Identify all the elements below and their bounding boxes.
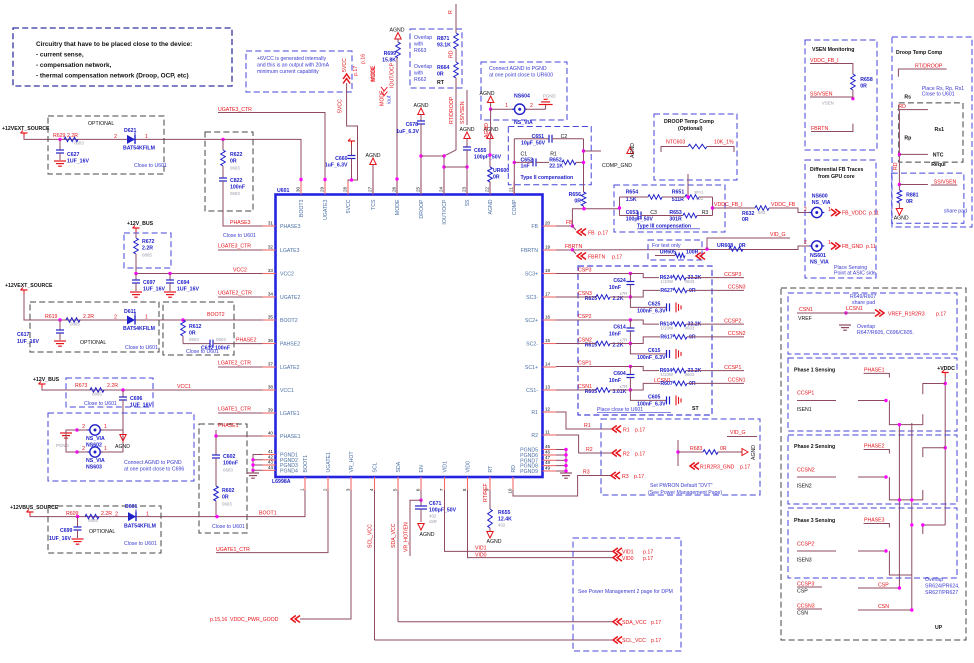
svg-text:UGATE2: UGATE2: [280, 295, 300, 301]
svg-text:Phase 3 Sensing: Phase 3 Sensing: [794, 518, 835, 524]
svg-text:100nF: 100nF: [230, 185, 245, 191]
wire NTC to type III: [687, 174, 689, 197]
svg-text:45: 45: [545, 444, 551, 449]
svg-text:p.17: p.17: [635, 452, 645, 458]
svg-text:C1: C1: [521, 151, 528, 157]
svg-text:PHASE3: PHASE3: [280, 224, 301, 230]
svg-text:R1: R1: [531, 410, 538, 416]
svg-text:RD: RD: [449, 50, 455, 58]
svg-text:NTC: NTC: [933, 153, 944, 159]
svg-text:1/10W: 1/10W: [660, 326, 674, 331]
svg-text:- thermal compensation network: - thermal compensation network (Droop, O…: [36, 73, 189, 80]
svg-text:IOUT/OCP: IOUT/OCP: [390, 62, 396, 88]
svg-text:100pF_50V: 100pF_50V: [474, 155, 502, 161]
svg-text:p.17: p.17: [634, 474, 644, 480]
svg-text:p.11: p.11: [869, 211, 879, 217]
svg-text:p.15,16: p.15,16: [210, 617, 227, 623]
svg-text:PAHSE2: PAHSE2: [280, 342, 300, 348]
svg-text:Close to U601: Close to U601: [223, 233, 256, 239]
note box ST current sense: [578, 266, 712, 415]
svg-text:LGATE3: LGATE3: [280, 248, 300, 254]
svg-text:Close to U601: Close to U601: [84, 401, 117, 407]
capacitor C617: [59, 320, 61, 330]
svg-text:CSN: CSN: [878, 604, 889, 610]
svg-text:0R: 0R: [720, 446, 727, 452]
wire AGND net down: [490, 109, 492, 138]
svg-text:402: 402: [429, 514, 437, 519]
svg-text:NS_VIA: NS_VIA: [514, 120, 533, 126]
capacitor C627: [59, 139, 61, 150]
svg-text:L6998A: L6998A: [272, 479, 291, 485]
svg-text:PHASE1: PHASE1: [218, 423, 239, 429]
svg-text:Close to U601: Close to U601: [134, 163, 167, 169]
svg-text:7: 7: [439, 488, 444, 491]
svg-text:R1: R1: [623, 428, 630, 434]
svg-text:LGATE1_CTR: LGATE1_CTR: [218, 407, 251, 413]
svg-text:NS603: NS603: [86, 465, 102, 471]
svg-text:p.17: p.17: [635, 428, 645, 434]
svg-text:RT: RT: [488, 465, 494, 473]
svg-text:VID1: VID1: [443, 461, 449, 473]
svg-text:10nF: 10nF: [609, 285, 621, 291]
svg-text:5VCC: 5VCC: [346, 199, 352, 213]
svg-text:Close to U601: Close to U601: [212, 524, 245, 530]
svg-text:CCSN2: CCSN2: [797, 468, 815, 474]
note box D621 optional: [48, 116, 164, 174]
note box C602/R602: [199, 424, 247, 533]
svg-text:39: 39: [268, 408, 274, 413]
svg-text:36: 36: [268, 338, 274, 343]
svg-text:with: with: [414, 42, 423, 48]
svg-text:TCS: TCS: [371, 199, 377, 210]
svg-text:NS_VIA: NS_VIA: [86, 458, 105, 464]
svg-text:LGATE1: LGATE1: [280, 411, 300, 417]
svg-text:Overlap: Overlap: [414, 35, 432, 41]
svg-text:Connect AGND to PGND: Connect AGND to PGND: [489, 66, 547, 72]
resistor R617: [630, 337, 660, 344]
svg-text:D601: D601: [125, 504, 138, 510]
svg-text:MODE: MODE: [371, 66, 377, 82]
svg-text:25: 25: [416, 186, 421, 192]
svg-text:BAT54KFILM: BAT54KFILM: [123, 326, 155, 332]
svg-text:2: 2: [323, 488, 328, 491]
svg-text:Set PWRON Default "DVT": Set PWRON Default "DVT": [650, 483, 713, 489]
inner box share pad: [892, 173, 964, 223]
svg-text:1uF_6.3V: 1uF_6.3V: [325, 163, 348, 169]
svg-text:OPTIONAL: OPTIONAL: [88, 121, 114, 127]
svg-text:10K_1%: 10K_1%: [714, 140, 734, 146]
svg-text:Point at ASIC side: Point at ASIC side: [834, 271, 876, 277]
svg-text:0805: 0805: [92, 392, 102, 397]
wire FB: [556, 225, 572, 227]
svg-text:18: 18: [545, 268, 551, 273]
svg-text:CSP: CSP: [797, 589, 808, 595]
svg-text:and this is an output with 20m: and this is an output with 20mA: [257, 63, 330, 69]
svg-text:R3: R3: [583, 470, 590, 476]
svg-text:SCL: SCL: [373, 462, 379, 472]
note box DPM: [573, 538, 681, 651]
svg-text:NS_VIA: NS_VIA: [812, 200, 831, 206]
svg-text:SS/VSEN: SS/VSEN: [460, 101, 466, 124]
svg-text:CCSP2: CCSP2: [797, 542, 814, 548]
svg-text:0R: 0R: [493, 175, 500, 181]
svg-text:LGATE2: LGATE2: [280, 365, 300, 371]
svg-text:FBRTN: FBRTN: [588, 255, 605, 261]
svg-text:+12VEXT_SOURCE: +12VEXT_SOURCE: [5, 283, 53, 289]
capacitor C694: [169, 274, 171, 281]
svg-text:NS604: NS604: [514, 94, 530, 100]
PGND5-9 ground: [565, 450, 567, 473]
note box: overlap with R663/R662: [410, 29, 462, 88]
note box: circuitry close to device: [13, 28, 232, 86]
svg-text:4: 4: [369, 488, 374, 491]
svg-text:1UF_16V: 1UF_16V: [49, 536, 71, 542]
svg-text:MODE: MODE: [380, 90, 386, 106]
svg-text:Close to U601: Close to U601: [124, 541, 157, 547]
svg-text:from GPU core: from GPU core: [818, 174, 855, 180]
svg-text:R672: R672: [142, 239, 155, 245]
svg-text:0603: 0603: [230, 166, 240, 171]
svg-text:LGATE3_CTR: LGATE3_CTR: [218, 244, 251, 250]
wire VCC2: [136, 273, 263, 275]
note box connect AGND to PGND UR600: [481, 62, 567, 120]
svg-text:CCSN2: CCSN2: [728, 331, 746, 337]
svg-text:+12V_BUS: +12V_BUS: [127, 221, 154, 227]
svg-text:Phase 1 Sensing: Phase 1 Sensing: [794, 368, 835, 374]
svg-text:0603: 0603: [230, 191, 240, 196]
svg-text:C604: C604: [613, 371, 626, 377]
svg-text:p.16: p.16: [361, 54, 367, 64]
svg-text:RT: RT: [437, 80, 445, 86]
svg-text:x5R: x5R: [429, 519, 437, 524]
svg-text:Type II compensation: Type II compensation: [521, 175, 574, 181]
svg-text:0805: 0805: [142, 253, 152, 258]
svg-text:R2: R2: [623, 452, 630, 458]
svg-text:R655: R655: [498, 510, 511, 516]
capacitor C625: [630, 297, 666, 307]
svg-text:BOOT1: BOOT1: [259, 511, 277, 517]
svg-text:Close to U601: Close to U601: [922, 92, 955, 98]
svg-text:OPTIONAL: OPTIONAL: [89, 529, 115, 535]
svg-text:C602: C602: [223, 454, 236, 460]
svg-text:Requi: Requi: [931, 162, 946, 168]
svg-text:PGND9: PGND9: [520, 469, 538, 475]
svg-text:SC2-: SC2-: [526, 342, 538, 348]
svg-text:ISEN2: ISEN2: [797, 484, 812, 490]
svg-text:FB_GND: FB_GND: [842, 244, 863, 250]
svg-text:NS600: NS600: [812, 194, 828, 200]
svg-text:C605: C605: [648, 395, 661, 401]
svg-text:Circuitry that have to be plac: Circuitry that have to be placed close t…: [36, 41, 192, 48]
svg-text:1UF_16V: 1UF_16V: [143, 287, 165, 293]
svg-text:1UF_16V: 1UF_16V: [130, 403, 152, 409]
svg-text:AGND: AGND: [751, 445, 757, 460]
svg-text:CSP2: CSP2: [578, 314, 592, 320]
ground overlap: [839, 324, 851, 326]
svg-text:R602: R602: [222, 488, 235, 494]
resistor R655 on RT: [489, 490, 491, 509]
svg-text:VCC1: VCC1: [280, 388, 294, 394]
svg-text:17: 17: [545, 292, 551, 297]
svg-text:AGND: AGND: [484, 123, 490, 138]
svg-text:AGND: AGND: [488, 199, 494, 214]
svg-text:p.17: p.17: [598, 231, 608, 237]
long vertical wires: [898, 425, 900, 588]
via NS602: [77, 429, 90, 431]
svg-text:COMP_GND: COMP_GND: [602, 163, 632, 169]
note box Type II compensation: [508, 127, 591, 185]
note box: +6VCC note: [246, 51, 352, 92]
svg-text:RT/DROOP: RT/DROOP: [449, 96, 455, 124]
svg-text:R2: R2: [531, 433, 538, 439]
svg-text:C678: C678: [406, 122, 419, 128]
svg-text:2: 2: [115, 512, 118, 518]
svg-text:32: 32: [268, 245, 274, 250]
svg-text:PGND4: PGND4: [280, 468, 298, 474]
svg-text:R673: R673: [75, 383, 88, 389]
svg-text:R652: R652: [549, 158, 562, 164]
svg-text:37: 37: [268, 362, 274, 367]
svg-text:15: 15: [545, 338, 551, 343]
svg-text:OPTIONAL: OPTIONAL: [80, 340, 106, 346]
svg-text:8: 8: [462, 488, 467, 491]
svg-text:See Power Management 2 page fo: See Power Management 2 page for DPM: [578, 589, 673, 595]
svg-text:VCC1: VCC1: [177, 384, 191, 390]
svg-text:CCSN1: CCSN1: [728, 378, 746, 384]
svg-text:p.17: p.17: [643, 556, 653, 562]
svg-text:0603: 0603: [685, 279, 695, 284]
svg-text:41: 41: [268, 449, 274, 454]
svg-text:CCSP1: CCSP1: [724, 365, 741, 371]
svg-text:19: 19: [545, 245, 551, 250]
svg-text:0805: 0805: [88, 518, 98, 523]
svg-text:30: 30: [296, 186, 301, 192]
svg-text:p.11: p.11: [866, 244, 876, 250]
svg-text:Rs1: Rs1: [935, 127, 945, 133]
svg-text:sim1: sim1: [694, 190, 704, 195]
svg-text:100nF_6.3V: 100nF_6.3V: [637, 309, 666, 315]
svg-text:RD: RD: [511, 465, 517, 473]
wire VCC1: [42, 388, 263, 390]
svg-text:43: 43: [268, 460, 274, 465]
svg-text:AGND: AGND: [894, 216, 909, 222]
svg-text:share pad: share pad: [944, 209, 967, 215]
wire VID1: [445, 490, 614, 551]
svg-text:BOOT2: BOOT2: [207, 312, 225, 318]
svg-text:402: 402: [696, 196, 704, 201]
svg-text:0603: 0603: [74, 141, 84, 146]
wire SDA: [397, 490, 399, 622]
wire R2: [556, 435, 611, 453]
svg-text:1nF: 1nF: [521, 164, 530, 170]
svg-text:p.17: p.17: [651, 638, 661, 644]
note box Differential FB Traces: [805, 160, 876, 278]
svg-text:CCSN3: CCSN3: [728, 285, 746, 291]
svg-text:2: 2: [114, 315, 117, 321]
phase 1 sensing box: [788, 358, 957, 431]
svg-text:2: 2: [530, 103, 533, 109]
wire BOOT2: [24, 294, 263, 320]
svg-text:R: R: [448, 10, 454, 14]
svg-text:Close to U601: Close to U601: [125, 345, 158, 351]
VREF section: [788, 293, 957, 354]
svg-text:23: 23: [462, 186, 467, 192]
svg-text:MODE: MODE: [395, 199, 401, 215]
svg-text:LCSN1: LCSN1: [846, 306, 863, 312]
svg-text:R2: R2: [586, 447, 593, 453]
svg-text:VID0: VID0: [466, 461, 472, 473]
svg-text:VREF_R1R2R3: VREF_R1R2R3: [888, 312, 925, 318]
svg-text:VDDC_PWR_GOOD: VDDC_PWR_GOOD: [230, 617, 279, 623]
svg-text:p.17: p.17: [643, 550, 653, 556]
ground PGND: [545, 105, 547, 109]
svg-text:AGND: AGND: [115, 444, 130, 450]
svg-text:VREF: VREF: [798, 316, 812, 322]
svg-text:PHASE3: PHASE3: [864, 518, 885, 524]
svg-text:DROOP Temp Comp: DROOP Temp Comp: [664, 119, 714, 125]
svg-text:C660: C660: [335, 156, 348, 162]
svg-text:R656: R656: [569, 192, 582, 198]
svg-text:R654: R654: [626, 190, 639, 196]
svg-text:511R: 511R: [672, 197, 684, 203]
svg-text:2.2R: 2.2R: [107, 383, 118, 389]
note box R673: [66, 378, 153, 407]
svg-text:CCSP2: CCSP2: [724, 319, 741, 325]
svg-text:R881: R881: [906, 193, 919, 199]
capacitor C822: [222, 166, 224, 178]
note box connect AGND to PGND: [48, 413, 194, 481]
svg-text:1/10W: 1/10W: [660, 279, 674, 284]
svg-text:BAT54KFILM: BAT54KFILM: [124, 524, 156, 530]
svg-text:100pF_50V: 100pF_50V: [626, 217, 654, 223]
svg-text:Close to U601: Close to U601: [186, 349, 219, 355]
svg-text:R612: R612: [189, 324, 202, 330]
svg-text:SCL_VCC: SCL_VCC: [368, 524, 374, 548]
svg-text:301R: 301R: [669, 217, 682, 223]
svg-text:C617: C617: [17, 332, 30, 338]
svg-text:LGATE2_CTR: LGATE2_CTR: [218, 361, 251, 367]
svg-text:1: 1: [828, 207, 831, 213]
svg-text:0603: 0603: [685, 326, 695, 331]
svg-text:NS_VIA: NS_VIA: [86, 436, 105, 442]
svg-text:at one point close to C696: at one point close to C696: [124, 467, 184, 473]
svg-text:+12VEXT_SOURCE: +12VEXT_SOURCE: [2, 126, 50, 132]
svg-text:3: 3: [346, 488, 351, 491]
svg-text:6: 6: [416, 488, 421, 491]
svg-text:R627: R627: [660, 288, 673, 294]
resistor R881: [897, 190, 902, 203]
svg-text:24: 24: [439, 186, 444, 192]
svg-text:5VCC: 5VCC: [338, 99, 344, 113]
wire BOOT3: [24, 137, 301, 182]
svg-text:Rp: Rp: [904, 136, 911, 142]
svg-text:R683: R683: [690, 446, 703, 452]
svg-text:1uF_6.3V: 1uF_6.3V: [396, 129, 419, 135]
svg-text:EN: EN: [419, 465, 425, 472]
svg-text:UGATE3: UGATE3: [323, 199, 329, 219]
note box R622/C822: [205, 132, 253, 211]
svg-text:0603: 0603: [223, 468, 233, 473]
svg-text:48: 48: [545, 460, 551, 465]
svg-text:Phase 2 Sensing: Phase 2 Sensing: [794, 444, 835, 450]
svg-text:1: 1: [505, 103, 508, 109]
svg-text:SC3+: SC3+: [525, 272, 538, 278]
svg-text:FBRTN: FBRTN: [521, 248, 538, 254]
svg-text:5VCC: 5VCC: [342, 58, 348, 72]
resistor R658: [851, 74, 856, 90]
svg-text:minimum current capability: minimum current capability: [257, 69, 319, 75]
svg-text:0R: 0R: [689, 288, 696, 294]
phase1 wires: [923, 384, 945, 395]
svg-text:CSP1: CSP1: [578, 361, 592, 367]
svg-text:1: 1: [145, 315, 148, 321]
svg-text:VID0: VID0: [622, 556, 634, 562]
svg-text:5: 5: [393, 488, 398, 491]
svg-text:VSEN Monitoring: VSEN Monitoring: [812, 47, 854, 53]
svg-text:0R: 0R: [189, 331, 196, 337]
ground PGND: [66, 430, 77, 432]
svg-text:iout: iout: [387, 95, 393, 104]
svg-text:R3: R3: [702, 210, 709, 216]
svg-text:PHASE2: PHASE2: [236, 338, 257, 344]
svg-text:2.2R: 2.2R: [101, 511, 112, 517]
svg-text:C655: C655: [474, 148, 487, 154]
svg-text:1/10W: 1/10W: [660, 372, 674, 377]
svg-text:2.2R: 2.2R: [142, 246, 153, 252]
svg-text:NTC603: NTC603: [666, 140, 685, 146]
svg-text:(Optional): (Optional): [678, 126, 703, 132]
svg-text:- compensation network,: - compensation network,: [36, 62, 112, 69]
svg-text:1: 1: [104, 446, 107, 452]
svg-text:VID1: VID1: [475, 546, 487, 552]
svg-text:2: 2: [804, 207, 807, 213]
note box for test only: [648, 240, 702, 260]
svg-text:2: 2: [114, 134, 117, 140]
phase 2 sensing box: [788, 435, 957, 504]
svg-text:U601: U601: [277, 188, 290, 194]
svg-text:R1: R1: [584, 423, 591, 429]
svg-text:p.17: p.17: [612, 255, 622, 261]
svg-text:10nF: 10nF: [609, 378, 621, 384]
svg-text:R658: R658: [860, 77, 873, 83]
svg-text:PGND: PGND: [56, 443, 69, 448]
svg-text:R651: R651: [672, 190, 685, 196]
svg-text:AGND: AGND: [390, 28, 405, 34]
capacitor C671 on EN: [420, 490, 422, 500]
svg-text:BOOT2: BOOT2: [280, 318, 298, 324]
svg-text:with: with: [414, 71, 423, 77]
svg-text:40: 40: [268, 431, 274, 436]
svg-text:16: 16: [545, 315, 551, 320]
resistor R602: [214, 486, 219, 501]
resistor R627: [630, 290, 660, 297]
svg-text:1: 1: [146, 512, 149, 518]
svg-text:20: 20: [545, 221, 551, 226]
svg-text:38: 38: [268, 385, 274, 390]
svg-text:VID_G: VID_G: [770, 232, 786, 238]
note box D601 optional: [48, 506, 161, 553]
svg-text:100nF: 100nF: [223, 461, 238, 467]
svg-text:+6VCC is generated internally: +6VCC is generated internally: [257, 56, 326, 62]
svg-text:FB_VDDC: FB_VDDC: [842, 211, 866, 217]
svg-text:VID0: VID0: [475, 553, 487, 559]
svg-text:CCSP3: CCSP3: [724, 272, 741, 278]
svg-text:PHASE1: PHASE1: [864, 368, 885, 374]
svg-text:2: 2: [82, 446, 85, 452]
svg-text:R617: R617: [660, 335, 673, 341]
svg-text:0603: 0603: [216, 337, 226, 342]
svg-text:VSEN: VSEN: [822, 101, 834, 106]
